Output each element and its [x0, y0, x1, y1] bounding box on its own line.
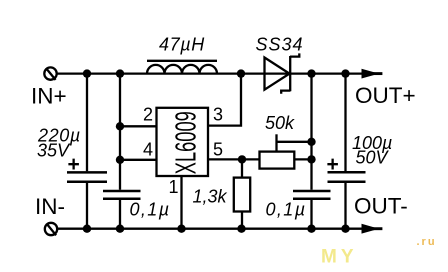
svg-text:50V: 50V	[356, 148, 390, 168]
wire vin column x=120	[119, 74, 121, 229]
svg-text:35V: 35V	[37, 141, 71, 161]
wire pin3 to top rail	[208, 74, 241, 126]
svg-text:50k: 50k	[265, 113, 295, 133]
wire bottom rail	[58, 228, 365, 230]
svg-text:OUT-: OUT-	[354, 193, 408, 218]
svg-text:47µH: 47µH	[159, 35, 205, 55]
svg-text:MY: MY	[321, 247, 358, 268]
wire pin2	[120, 125, 157, 127]
wire inductor top bar	[147, 60, 217, 62]
svg-text:IN-: IN-	[35, 194, 65, 219]
svg-text:SS34: SS34	[256, 35, 304, 55]
svg-text:0,1µ: 0,1µ	[130, 199, 171, 219]
wire pin1 to ground rail	[180, 176, 182, 229]
junction dots pins	[116, 122, 316, 164]
svg-text:4: 4	[143, 140, 153, 160]
wire output cap column x=345.5	[344, 74, 346, 229]
junction dots bottom rail	[83, 225, 350, 233]
capacitor C1 220µ plates	[67, 172, 107, 181]
svg-text:IN+: IN+	[31, 84, 67, 109]
svg-text:OUT+: OUT+	[355, 83, 416, 108]
capacitor C4 100µ plates	[328, 172, 366, 181]
wire output column x=311.5	[310, 74, 312, 229]
svg-text:+: +	[68, 153, 80, 176]
op-amp box U1 XL6009	[157, 108, 209, 176]
resistor R1 1,3k	[234, 159, 250, 228]
node OUT+ arrow	[362, 69, 383, 79]
node OUT- arrow	[362, 224, 383, 234]
diode D1 SS34	[265, 53, 300, 93]
wire pin4	[120, 159, 157, 161]
svg-text:5: 5	[213, 140, 223, 160]
capacitor C3 0,1µ plates	[293, 191, 331, 199]
svg-text:+: +	[327, 153, 339, 176]
svg-text:2: 2	[143, 104, 153, 124]
wire input cap leads x=87	[86, 74, 88, 229]
svg-text:1,3k: 1,3k	[193, 187, 228, 207]
capacitor C2 0,1µ plates	[103, 191, 141, 199]
potentiometer R2 50k	[260, 134, 312, 168]
terminal IN-	[45, 223, 57, 236]
terminal IN+	[44, 67, 56, 80]
svg-text:.ru: .ru	[417, 236, 437, 248]
junction dots top rail	[83, 69, 350, 77]
svg-text:XL6009: XL6009	[170, 111, 202, 174]
svg-text:1: 1	[169, 177, 179, 197]
inductor L1 47µH	[147, 65, 217, 74]
svg-text:3: 3	[213, 104, 223, 124]
svg-text:0,1µ: 0,1µ	[266, 199, 307, 219]
wire pin5 feedback	[208, 158, 260, 160]
wire top rail	[57, 72, 364, 74]
